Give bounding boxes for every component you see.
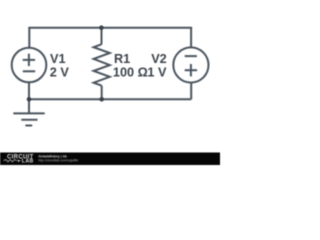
footer bar xyxy=(0,153,220,166)
wire R1 top stem xyxy=(101,28,103,45)
svg-text:100 Ω: 100 Ω xyxy=(113,65,148,79)
node top junction xyxy=(99,25,104,30)
wire V2 bottom stem xyxy=(190,82,192,99)
wire bottom horizontal xyxy=(29,98,191,100)
node bottom junction xyxy=(99,97,104,102)
svg-text:http://circuitlab.com/cqsdfbr: http://circuitlab.com/cqsdfbr xyxy=(38,158,79,162)
wire V2 top stem xyxy=(190,28,192,49)
wire R1 bottom stem xyxy=(101,86,103,100)
wire top horizontal xyxy=(28,27,192,29)
svg-text:2 V: 2 V xyxy=(50,65,70,79)
node ground junction xyxy=(27,97,32,102)
svg-text:R1: R1 xyxy=(114,52,130,66)
CircuitLab logo xyxy=(7,154,34,164)
wire V1 top stem xyxy=(28,28,30,49)
wire V1 bottom stem xyxy=(28,82,30,99)
resistor R1 xyxy=(94,44,110,85)
svg-text:LAB: LAB xyxy=(22,158,34,164)
voltage source V1 xyxy=(12,48,47,83)
svg-text:V2: V2 xyxy=(151,52,167,66)
ground xyxy=(13,113,44,125)
svg-text:V1: V1 xyxy=(50,52,66,66)
wire ground stem xyxy=(28,99,30,113)
svg-text:1 V: 1 V xyxy=(147,65,167,79)
voltage source V2 xyxy=(173,47,208,82)
